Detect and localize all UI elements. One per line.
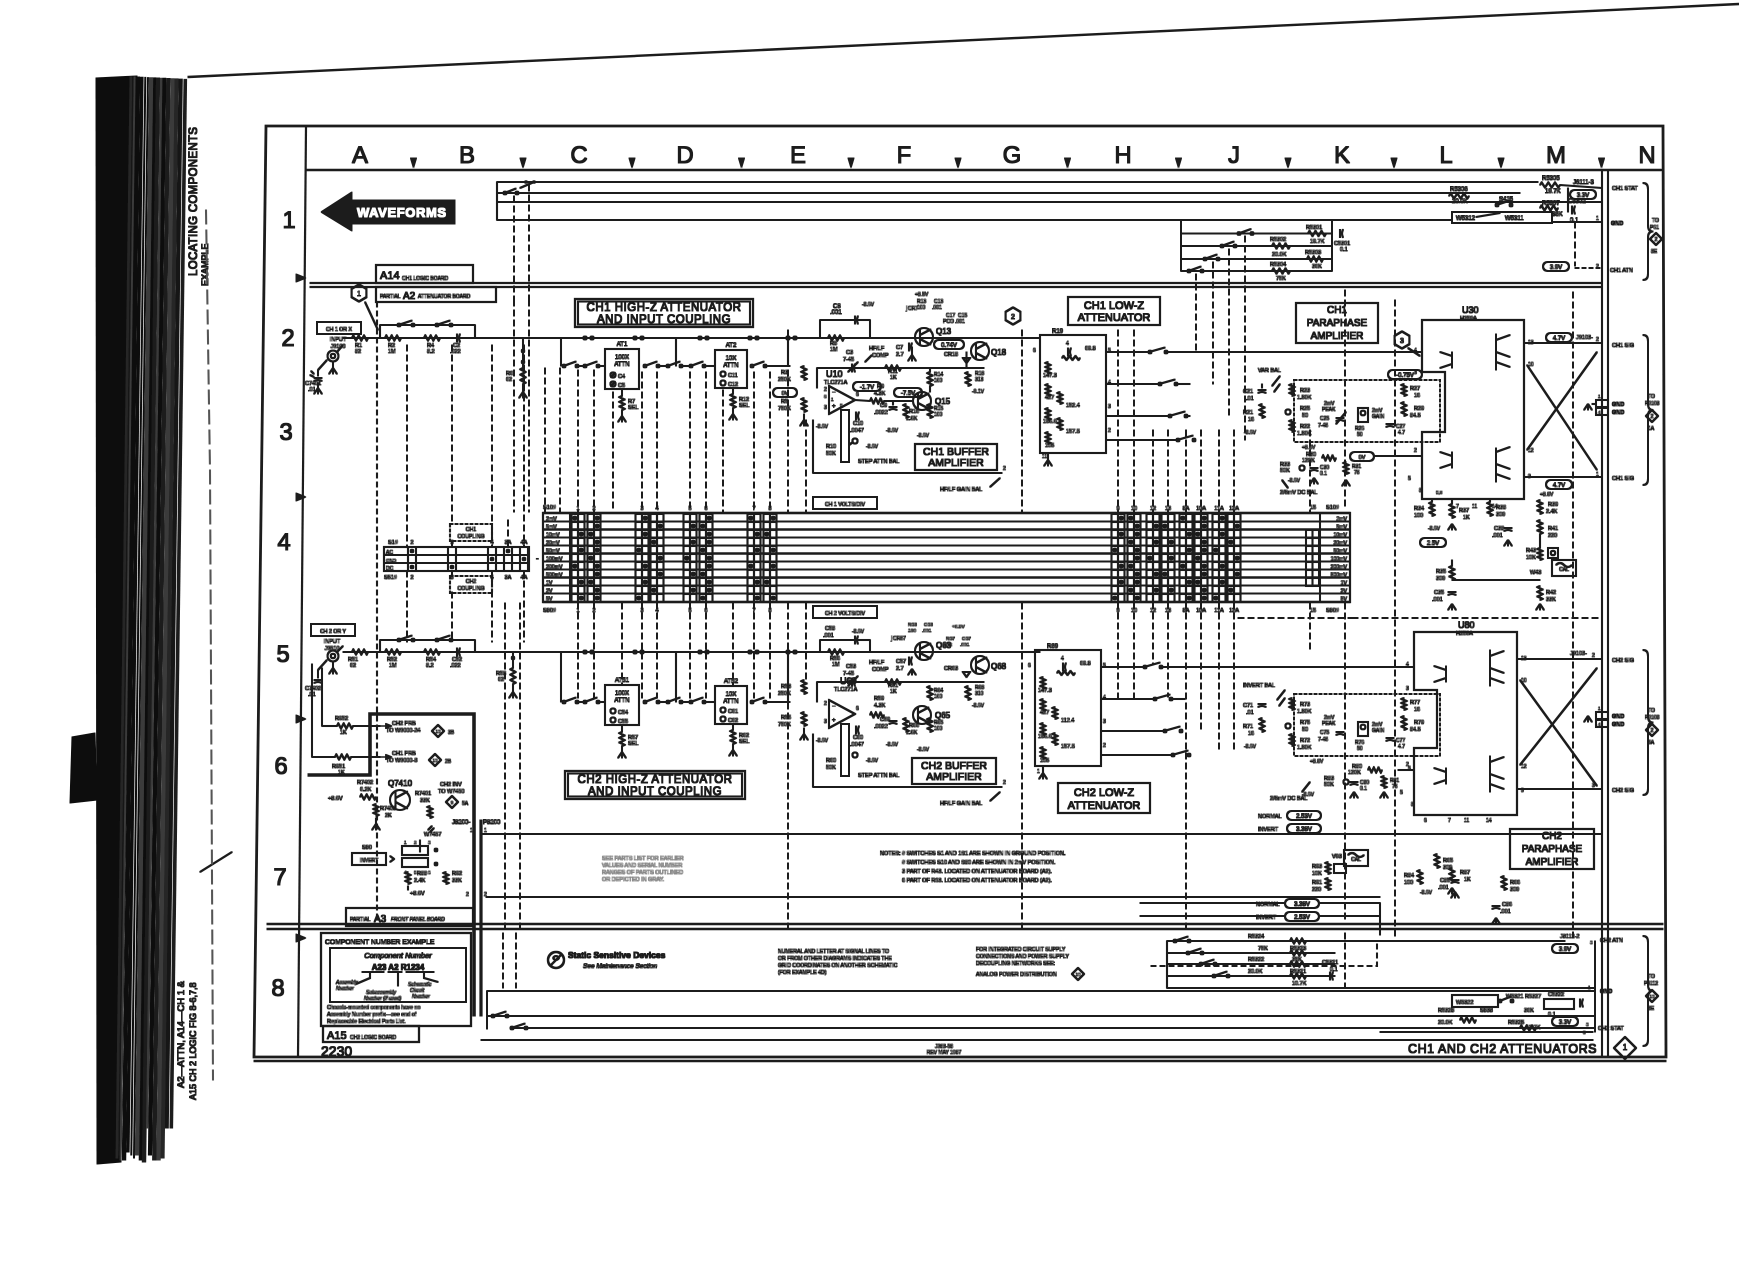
svg-text:147.3: 147.3	[1043, 373, 1057, 379]
svg-text:+8.6V: +8.6V	[328, 796, 343, 802]
svg-text:ATTN: ATTN	[614, 362, 629, 368]
svg-text:3: 3	[1414, 370, 1417, 376]
switch lowz3	[1169, 415, 1172, 418]
svg-text:1: 1	[282, 207, 295, 234]
svg-text:5V: 5V	[546, 597, 553, 603]
svg-text:SEL: SEL	[628, 741, 638, 747]
svg-text:C35: C35	[1434, 590, 1444, 596]
label CH2 HIGH-Z box	[565, 771, 745, 799]
svg-text:6: 6	[274, 753, 287, 780]
svg-text:12: 12	[1521, 764, 1527, 770]
svg-text:2: 2	[1596, 264, 1599, 270]
svg-text:-8.6V: -8.6V	[1428, 526, 1441, 532]
svg-text:15: 15	[1310, 608, 1316, 614]
svg-text:33K: 33K	[452, 878, 462, 884]
svg-text:4.3K: 4.3K	[874, 703, 886, 709]
svg-text:R39: R39	[1548, 502, 1558, 508]
svg-text:R79: R79	[1414, 720, 1424, 726]
svg-text:2/5mV DC BAL: 2/5mV DC BAL	[1270, 796, 1307, 802]
svg-text:3: 3	[279, 419, 292, 446]
svg-text:R7403: R7403	[380, 806, 396, 812]
svg-text:120K: 120K	[1348, 770, 1361, 776]
resistor R4	[424, 336, 440, 341]
switch S425	[1496, 204, 1499, 207]
svg-text:TO W9000-24: TO W9000-24	[386, 728, 420, 734]
svg-text:CH 1 OR X: CH 1 OR X	[326, 327, 352, 333]
svg-text:-7.5V: -7.5V	[901, 391, 915, 397]
svg-text:J9100: J9100	[331, 344, 346, 350]
svg-text:TO: TO	[1652, 218, 1659, 224]
svg-text:3B: 3B	[448, 730, 455, 736]
svg-text:4.7V: 4.7V	[1553, 336, 1565, 342]
switch ch2 a	[398, 639, 401, 642]
svg-text:6 PART OF R63. LOCATED ON ATT: 6 PART OF R63. LOCATED ON ATTENUATOR BOA…	[902, 878, 1052, 884]
svg-text:100: 100	[934, 726, 943, 732]
svg-text:CAL: CAL	[1351, 857, 1361, 863]
svg-text:ATTENUATOR BOARD: ATTENUATOR BOARD	[418, 294, 471, 300]
svg-text:R952: R952	[335, 716, 348, 722]
svg-text:FOR INTEGRATED CIRCUIT SUPPLY: FOR INTEGRATED CIRCUIT SUPPLY	[976, 947, 1066, 953]
svg-text:AMPLIFIER: AMPLIFIER	[928, 457, 984, 469]
svg-text:Assembly Number prefix—see end: Assembly Number prefix—see end of	[327, 1012, 417, 1018]
svg-text:STEP ATTN BAL: STEP ATTN BAL	[858, 773, 899, 779]
svg-text:AND INPUT COUPLING: AND INPUT COUPLING	[588, 786, 722, 798]
svg-text:B: B	[459, 142, 475, 169]
svg-text:V93: V93	[1332, 854, 1342, 860]
svg-text:152.4: 152.4	[1066, 403, 1080, 409]
A3 board label	[346, 908, 473, 926]
svg-text:3 PART OF R43. LOCATED ON ATT: 3 PART OF R43. LOCATED ON ATTENUATOR BOA…	[902, 869, 1052, 875]
svg-text:CH1 HIGH-Z ATTENUATOR: CH1 HIGH-Z ATTENUATOR	[587, 302, 742, 314]
oval 4.7V top	[1546, 333, 1572, 342]
svg-text:R7401: R7401	[415, 791, 431, 797]
resistor R5307	[1540, 206, 1558, 211]
svg-text:1M: 1M	[388, 349, 396, 355]
svg-text:-8.6V: -8.6V	[886, 742, 899, 748]
svg-text:R87: R87	[1460, 870, 1470, 876]
svg-text:1K: 1K	[890, 689, 897, 695]
svg-text:U10: U10	[826, 369, 843, 379]
svg-text:S838: S838	[1480, 1008, 1493, 1014]
svg-text:GAIN: GAIN	[1372, 728, 1385, 734]
connector gnd mid2	[1596, 712, 1608, 719]
svg-text:13: 13	[432, 758, 438, 763]
U60 enclosure	[813, 786, 1002, 788]
svg-text:3: 3	[1400, 338, 1404, 345]
svg-text:100mV: 100mV	[546, 557, 563, 563]
svg-text:2: 2	[1003, 466, 1006, 472]
svg-text:C61: C61	[728, 709, 738, 715]
svg-text:C60: C60	[853, 735, 863, 741]
svg-text:75: 75	[1354, 470, 1360, 476]
svg-text:3: 3	[1406, 686, 1409, 692]
oval -0.75V	[1388, 370, 1422, 379]
svg-text:3.38V: 3.38V	[1294, 902, 1310, 908]
svg-text:C7: C7	[896, 345, 903, 351]
label CH1 BUFFER box	[915, 444, 997, 470]
svg-text:750K: 750K	[778, 722, 791, 728]
svg-text:R16: R16	[909, 409, 919, 415]
attenuator AT51	[605, 685, 639, 725]
svg-text:157.5: 157.5	[1066, 429, 1080, 435]
svg-text:2mV: 2mV	[1336, 517, 1347, 523]
svg-text:105: 105	[1040, 758, 1049, 764]
CH 2 OR Y box	[311, 624, 355, 636]
oval 0V ch1	[773, 388, 797, 397]
svg-text:R5303: R5303	[1305, 250, 1321, 256]
resistor R65	[928, 718, 933, 732]
attenuator AT1	[605, 349, 639, 389]
svg-text:11: 11	[1472, 504, 1477, 510]
oval -1.7V	[853, 382, 881, 391]
svg-text:11: 11	[1042, 454, 1047, 460]
svg-text:.001: .001	[932, 305, 942, 311]
svg-text:P9108: P9108	[1645, 715, 1660, 721]
svg-text:2mV: 2mV	[546, 517, 557, 523]
svg-text:U30: U30	[1462, 305, 1479, 315]
svg-text:TO: TO	[1648, 708, 1655, 714]
svg-text:309: 309	[1436, 576, 1445, 582]
svg-text:3.9V: 3.9V	[1559, 947, 1571, 953]
svg-text:196.6: 196.6	[1043, 419, 1057, 425]
svg-text:R59: R59	[874, 696, 884, 702]
component number example box	[321, 933, 471, 1026]
svg-text:CR63: CR63	[944, 666, 958, 672]
transistor Q65	[913, 706, 931, 724]
resistor R66	[904, 718, 909, 732]
oval 3.9V row1	[1543, 262, 1569, 271]
wire ch1 to lowz	[1022, 337, 1040, 339]
svg-text:220: 220	[1548, 533, 1557, 539]
svg-text:Number: Number	[336, 986, 354, 992]
resistor R11	[885, 366, 901, 371]
svg-text:CH1: CH1	[466, 527, 476, 533]
svg-text:+8.6V: +8.6V	[410, 891, 425, 897]
scan page diagonal	[188, 4, 1739, 77]
label CH1 LOW-Z box	[1068, 297, 1160, 325]
svg-text:5A: 5A	[462, 801, 469, 807]
svg-text:200mV: 200mV	[546, 565, 563, 571]
attenuator AT2	[715, 350, 747, 388]
wire ch2 to lowz	[1022, 651, 1035, 653]
svg-text:112.4: 112.4	[1061, 718, 1074, 724]
switch post AT52	[751, 701, 754, 704]
svg-text:Q68: Q68	[991, 662, 1007, 671]
svg-text:ATTN: ATTN	[614, 698, 629, 704]
svg-text:P9103: P9103	[1645, 401, 1660, 407]
svg-text:3.9V: 3.9V	[1550, 265, 1562, 271]
svg-text:196.6: 196.6	[1038, 734, 1052, 740]
svg-text:C5: C5	[618, 383, 625, 389]
grid ticks	[411, 158, 417, 168]
svg-text:C86: C86	[1502, 902, 1512, 908]
svg-text:J6111-3: J6111-3	[1573, 180, 1594, 186]
svg-text:1K: 1K	[1464, 877, 1471, 883]
svg-text:2: 2	[410, 575, 413, 581]
svg-text:3: 3	[824, 719, 827, 725]
svg-text:4: 4	[1066, 341, 1069, 347]
svg-text:2: 2	[466, 892, 469, 898]
svg-text:.0047: .0047	[850, 428, 864, 434]
svg-text:8: 8	[1419, 488, 1422, 494]
svg-text:R92: R92	[452, 871, 462, 877]
right rail lines	[1601, 171, 1603, 1057]
svg-text:R91: R91	[1312, 880, 1322, 886]
svg-text:.01: .01	[1246, 710, 1254, 716]
svg-text:200mV: 200mV	[1331, 565, 1348, 571]
svg-text:+: +	[832, 404, 836, 410]
svg-text:250K: 250K	[778, 691, 791, 697]
wire lowz out ch2	[1185, 666, 1414, 668]
bottom switch b	[511, 1027, 514, 1030]
svg-text:A2: A2	[403, 291, 416, 302]
svg-text:C59: C59	[880, 717, 890, 723]
svg-text:-8.6V: -8.6V	[972, 703, 985, 709]
switch lowz4	[1177, 439, 1180, 442]
svg-text:W43: W43	[1530, 570, 1541, 576]
svg-text:R21: R21	[1243, 410, 1253, 416]
svg-text:R9: R9	[877, 384, 884, 390]
svg-text:62: 62	[506, 377, 512, 383]
connector gnd mid1	[1596, 400, 1608, 407]
wire U80 pin9	[1517, 788, 1602, 790]
svg-text:ANALOG POWER DISTRIBUTION: ANALOG POWER DISTRIBUTION	[976, 972, 1057, 978]
svg-text:33K: 33K	[420, 798, 430, 804]
svg-text:M: M	[1546, 142, 1566, 169]
svg-text:-8.6V: -8.6V	[866, 444, 879, 450]
svg-text:0.1: 0.1	[1320, 471, 1327, 477]
svg-text:5: 5	[276, 641, 289, 668]
svg-text:TO W9000-8: TO W9000-8	[386, 758, 417, 764]
svg-text:50K: 50K	[826, 765, 836, 771]
switch lowz6	[1154, 698, 1157, 701]
svg-text:R27: R27	[1410, 386, 1420, 392]
svg-text:R93: R93	[1312, 864, 1322, 870]
feedback wire U10	[817, 367, 984, 369]
svg-text:1: 1	[1596, 216, 1599, 222]
svg-text:4: 4	[1103, 695, 1106, 701]
svg-text:2230: 2230	[321, 1043, 352, 1059]
svg-text:R22: R22	[1300, 424, 1310, 430]
wire to pin2 U30	[1374, 455, 1422, 457]
svg-text:50K: 50K	[1324, 782, 1334, 788]
jumper W5312 W5311 box	[1452, 212, 1552, 223]
svg-text:-8.6V: -8.6V	[917, 747, 930, 753]
svg-text:-8.6V: -8.6V	[852, 629, 865, 635]
wire row7 long	[486, 896, 1380, 898]
svg-text:2: 2	[281, 325, 294, 352]
capacitor C58 loop	[819, 640, 821, 652]
transistor Q68	[971, 656, 989, 674]
U30 upper pair	[1496, 334, 1510, 370]
svg-text:5A: 5A	[1648, 740, 1655, 746]
svg-text:G: G	[1003, 142, 1022, 169]
IC U80	[1414, 632, 1517, 815]
svg-text:C5321: C5321	[1322, 960, 1338, 966]
svg-text:309: 309	[1496, 512, 1505, 518]
svg-text:1.6K: 1.6K	[906, 730, 918, 736]
U80 cross wires	[1520, 680, 1597, 786]
svg-text:6: 6	[1424, 818, 1427, 824]
svg-text:1.50K: 1.50K	[1297, 431, 1312, 437]
svg-text:0V: 0V	[1359, 455, 1366, 461]
svg-text:7: 7	[1448, 818, 1451, 824]
svg-text:.0022: .0022	[874, 724, 888, 730]
svg-text:R5321: R5321	[1290, 969, 1306, 975]
wire U30 pin9	[1524, 476, 1602, 478]
svg-text:U80: U80	[1458, 620, 1475, 630]
svg-text:CH 2 VOLTS/DIV: CH 2 VOLTS/DIV	[825, 611, 866, 617]
svg-text:AMPLIFIER: AMPLIFIER	[1526, 857, 1579, 868]
capacitor C8 loop	[819, 320, 821, 338]
jumper W5322	[1452, 995, 1498, 1007]
svg-text:100: 100	[1414, 513, 1423, 519]
svg-text:PARAPHASE: PARAPHASE	[1522, 844, 1583, 855]
svg-text:+8.5V: +8.5V	[952, 624, 965, 630]
svg-text:J: J	[1228, 142, 1240, 169]
brace P5112	[1643, 936, 1653, 1046]
svg-text:R3: R3	[781, 370, 788, 376]
svg-text:16: 16	[1414, 393, 1420, 399]
svg-text:ATTN: ATTN	[723, 699, 738, 705]
svg-text:C: C	[570, 142, 587, 169]
svg-text:160: 160	[934, 694, 943, 700]
svg-text:TO: TO	[1648, 974, 1655, 980]
resistor R64	[928, 686, 933, 700]
svg-text:5mV: 5mV	[546, 525, 557, 531]
svg-text:5: 5	[1400, 790, 1403, 796]
scan-edge band	[96, 76, 137, 1164]
svg-text:7-45: 7-45	[1318, 737, 1328, 743]
svg-text:R41: R41	[1548, 526, 1558, 532]
svg-text:AT1: AT1	[617, 342, 628, 348]
scan blob	[70, 733, 97, 803]
svg-text:CH1: CH1	[1327, 305, 1347, 316]
resistor R1	[352, 336, 368, 341]
frame left margin line	[298, 126, 306, 1057]
svg-text:313: 313	[975, 377, 984, 383]
svg-text:5: 5	[1108, 348, 1111, 354]
svg-text:J9103-: J9103-	[1576, 335, 1593, 341]
svg-text:R53: R53	[781, 684, 791, 690]
svg-text:427: 427	[1045, 395, 1054, 401]
svg-text:1.6K: 1.6K	[906, 416, 918, 422]
svg-text:1: 1	[1037, 769, 1040, 775]
svg-text:J8112-2: J8112-2	[1560, 934, 1579, 940]
label CH1 COUPLING	[450, 524, 492, 541]
svg-text:16: 16	[1414, 707, 1420, 713]
svg-text:R5328: R5328	[1438, 1008, 1454, 1014]
wire U80 pin13	[1517, 658, 1602, 660]
svg-text:100X: 100X	[615, 355, 629, 361]
svg-text:.001: .001	[955, 319, 965, 325]
svg-text:2: 2	[1108, 428, 1111, 434]
brace P9103	[1643, 335, 1653, 485]
top bus switch S1	[504, 192, 507, 195]
svg-text:P61: P61	[1650, 225, 1659, 231]
svg-text:1.50K: 1.50K	[1297, 745, 1312, 751]
label CH2 COUPLING	[450, 576, 492, 593]
svg-text:H: H	[1114, 142, 1131, 169]
svg-text:50K: 50K	[1280, 468, 1290, 474]
svg-text:R23: R23	[1300, 388, 1310, 394]
svg-text:2: 2	[1003, 780, 1006, 786]
svg-text:⌡CR57: ⌡CR57	[890, 635, 906, 642]
svg-text:20mV: 20mV	[546, 541, 560, 547]
svg-text:J8200-: J8200-	[452, 820, 470, 826]
svg-text:P5112: P5112	[1644, 981, 1658, 987]
svg-text:A15: A15	[327, 1030, 347, 1042]
svg-text:D: D	[676, 142, 693, 169]
svg-text:.001: .001	[1492, 533, 1503, 539]
svg-text:310: 310	[975, 691, 984, 697]
svg-text:W5322: W5322	[1456, 1000, 1473, 1006]
svg-text:Number: Number	[412, 994, 430, 1000]
svg-text:.0047: .0047	[850, 742, 864, 748]
svg-text:-1.7V: -1.7V	[860, 385, 874, 391]
svg-text:Q13: Q13	[936, 327, 952, 336]
svg-text:120K: 120K	[1302, 458, 1315, 464]
svg-text:CH2 HIGH-Z ATTENUATOR: CH2 HIGH-Z ATTENUATOR	[578, 774, 733, 786]
svg-text:427: 427	[1040, 710, 1049, 716]
svg-text:5mV: 5mV	[1336, 525, 1347, 531]
svg-text:A: A	[352, 142, 368, 169]
svg-text:2: 2	[410, 540, 413, 546]
svg-text:1V: 1V	[546, 581, 553, 587]
A2 board label	[376, 287, 496, 302]
svg-text:SEE PARTS LIST FOR EARLIER: SEE PARTS LIST FOR EARLIER	[602, 856, 684, 862]
svg-text:CH2 SIG: CH2 SIG	[1612, 658, 1634, 664]
transistor Q13	[915, 328, 933, 346]
pot R60	[841, 724, 849, 776]
svg-text:4.7V: 4.7V	[1553, 483, 1565, 489]
resistor R8	[828, 336, 844, 341]
resistor R62 SEL	[732, 724, 734, 730]
transistor Q15	[913, 392, 931, 410]
bypass box ch1	[380, 324, 475, 326]
svg-text:WAVEFORMS: WAVEFORMS	[357, 205, 447, 220]
svg-text:2: 2	[1651, 414, 1654, 420]
CH 1 OR X box	[317, 322, 361, 334]
resistor R16	[904, 404, 909, 418]
brace P9108	[1643, 650, 1653, 795]
resistor R57 SEL	[621, 725, 623, 732]
svg-text:CH2: CH2	[1542, 831, 1562, 842]
svg-text:R5307: R5307	[1542, 201, 1560, 207]
hexagon flag 3	[1395, 332, 1410, 349]
svg-text:10X: 10X	[726, 356, 737, 362]
svg-text:CH2 INV: CH2 INV	[440, 782, 462, 788]
svg-text:36K: 36K	[1552, 212, 1563, 218]
svg-text:2: 2	[1406, 762, 1409, 768]
svg-text:−: −	[832, 390, 836, 396]
svg-text:147.3: 147.3	[1038, 688, 1052, 694]
svg-text:C62: C62	[728, 718, 738, 724]
svg-text:+8.5V: +8.5V	[915, 292, 929, 298]
svg-text:COMP: COMP	[872, 667, 889, 673]
resistor R52	[385, 650, 401, 655]
svg-text:+: +	[832, 718, 836, 724]
svg-text:SEL: SEL	[739, 739, 749, 745]
switch lowz7	[1164, 730, 1167, 733]
label CH2 BUFFER box	[912, 758, 996, 784]
svg-text:75K: 75K	[1258, 946, 1268, 952]
wire invert	[1140, 915, 1285, 917]
svg-text:C3: C3	[846, 350, 853, 356]
svg-text:20.0K: 20.0K	[1248, 969, 1263, 975]
dashed link C5302	[1574, 222, 1576, 266]
svg-text:S80: S80	[362, 845, 372, 851]
